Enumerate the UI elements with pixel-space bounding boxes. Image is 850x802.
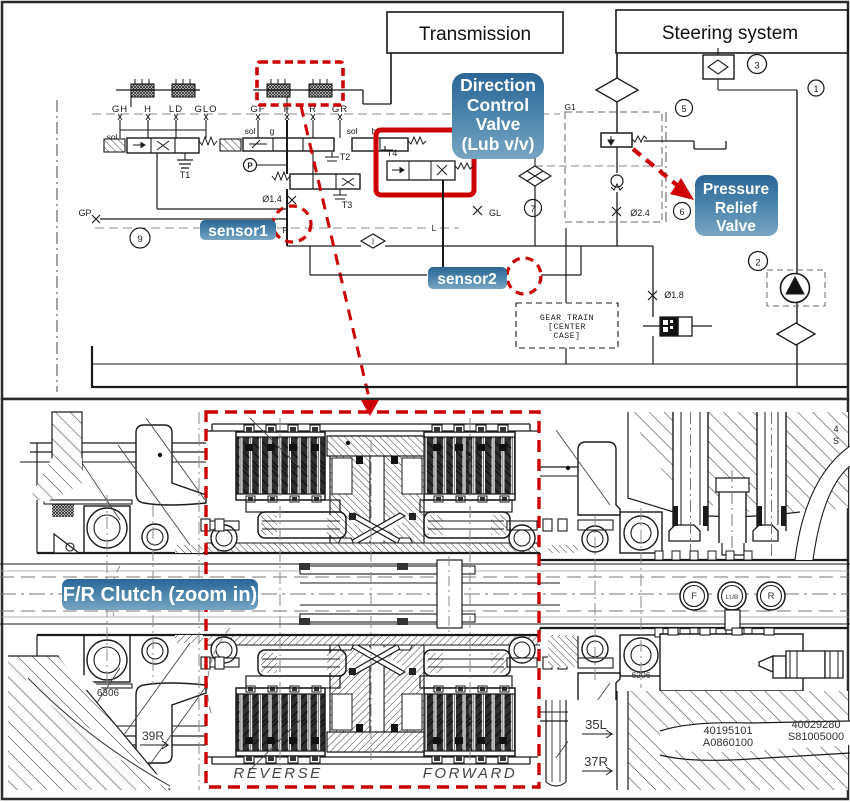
svg-text:sol: sol [347, 126, 358, 136]
svg-text:F: F [691, 591, 697, 602]
svg-text:Valve: Valve [476, 114, 521, 134]
svg-text:40029280: 40029280 [792, 719, 841, 731]
svg-text:F/R Clutch (zoom in): F/R Clutch (zoom in) [63, 584, 257, 606]
svg-text:Pressure: Pressure [703, 181, 770, 198]
svg-text:S: S [833, 436, 839, 446]
svg-text:37R: 37R [584, 754, 608, 769]
svg-text:P: P [282, 226, 287, 235]
svg-text:Relief: Relief [715, 200, 758, 217]
svg-text:Control: Control [467, 95, 529, 115]
svg-text:GLO: GLO [194, 104, 217, 115]
svg-text:3: 3 [754, 61, 759, 72]
svg-text:Transmission: Transmission [419, 24, 531, 45]
svg-text:L: L [432, 223, 437, 233]
svg-text:4: 4 [833, 424, 838, 434]
svg-text:T1: T1 [180, 170, 191, 180]
svg-text:1: 1 [813, 84, 818, 94]
svg-text:GL: GL [489, 208, 501, 218]
svg-text:sensor2: sensor2 [437, 271, 496, 288]
svg-text:GH: GH [112, 104, 128, 115]
svg-text:R: R [768, 591, 775, 602]
svg-text:H: H [144, 104, 152, 115]
svg-text:Ø1.8: Ø1.8 [664, 290, 684, 300]
svg-text:35L: 35L [585, 717, 607, 732]
svg-text:T3: T3 [342, 200, 353, 210]
svg-text:g: g [270, 126, 275, 136]
svg-text:REVERSE: REVERSE [233, 765, 322, 782]
svg-text:sol: sol [245, 126, 256, 136]
svg-text:(Lub v/v): (Lub v/v) [462, 134, 535, 154]
svg-text:Ø1.4: Ø1.4 [262, 194, 282, 204]
svg-text:CASE]: CASE] [553, 331, 580, 341]
svg-text:6: 6 [679, 207, 684, 217]
svg-text:Valve: Valve [716, 218, 756, 235]
svg-text:7: 7 [530, 204, 535, 214]
svg-text:Ø2.4: Ø2.4 [630, 208, 650, 218]
svg-text:Direction: Direction [460, 75, 536, 95]
svg-text:39R: 39R [142, 729, 164, 743]
svg-text:9: 9 [137, 234, 142, 245]
svg-text:GP: GP [78, 208, 91, 218]
svg-text:40195101: 40195101 [704, 725, 753, 737]
svg-text:S81005000: S81005000 [788, 731, 844, 743]
svg-text:sensor1: sensor1 [208, 223, 268, 240]
svg-text:LUB: LUB [726, 594, 739, 601]
svg-text:T2: T2 [340, 152, 351, 162]
svg-text:6306: 6306 [97, 688, 120, 699]
svg-text:FORWARD: FORWARD [423, 765, 517, 782]
svg-text:G1: G1 [564, 102, 576, 112]
svg-text:GEAR TRAIN: GEAR TRAIN [540, 314, 594, 323]
svg-text:2: 2 [755, 258, 760, 269]
svg-text:P: P [247, 162, 253, 171]
svg-text:[CENTER: [CENTER [548, 322, 586, 332]
svg-text:LD: LD [169, 104, 183, 115]
svg-text:5: 5 [681, 104, 686, 114]
svg-text:Steering system: Steering system [662, 23, 798, 44]
svg-text:A0860100: A0860100 [703, 737, 753, 749]
svg-text:I: I [372, 238, 374, 247]
